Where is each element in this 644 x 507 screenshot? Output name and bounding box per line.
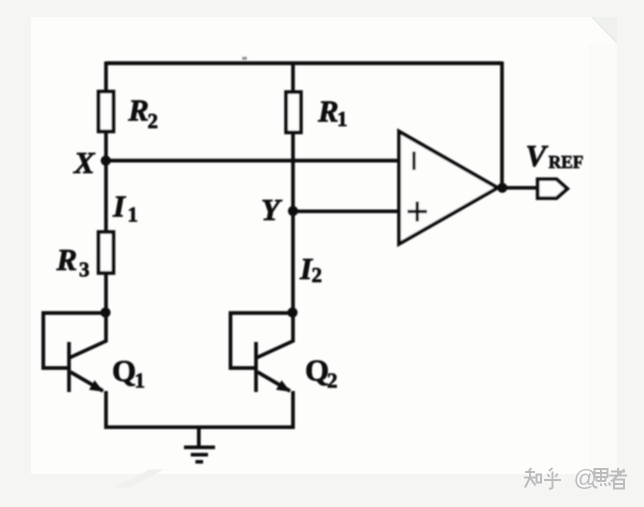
svg-text:Q: Q	[305, 353, 329, 388]
svg-text:2: 2	[148, 109, 159, 133]
svg-text:REF: REF	[549, 152, 584, 172]
svg-text:@: @	[574, 465, 597, 491]
svg-text:I: I	[112, 189, 126, 224]
svg-text:2: 2	[327, 368, 338, 392]
svg-text:1: 1	[135, 369, 146, 393]
svg-text:R: R	[127, 93, 149, 128]
svg-text:Q: Q	[112, 353, 136, 388]
svg-text:R: R	[56, 242, 78, 277]
svg-text:Y: Y	[261, 192, 283, 227]
svg-text:V: V	[526, 138, 549, 173]
svg-text:R: R	[317, 93, 339, 128]
svg-text:3: 3	[79, 258, 90, 282]
svg-text:1: 1	[337, 107, 348, 131]
svg-text:1: 1	[128, 203, 139, 227]
svg-text:2: 2	[312, 263, 323, 287]
svg-text:X: X	[73, 145, 96, 180]
